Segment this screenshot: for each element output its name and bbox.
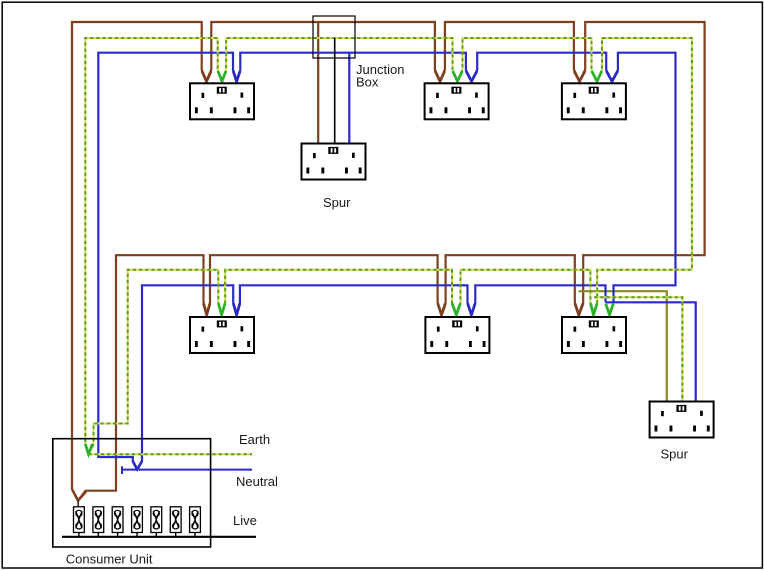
- arrow terminal brown socket2: [435, 71, 445, 81]
- wire live ring (brown): [72, 22, 705, 501]
- arrow terminal blue neutral bar: [133, 461, 142, 469]
- arrow terminal brown socket3: [574, 71, 585, 81]
- arrow terminal green socket2: [453, 71, 463, 81]
- socket outlet spur bottom right: [650, 402, 714, 438]
- socket outlet S2 top row: [425, 83, 489, 119]
- fuse F7: [190, 507, 201, 537]
- wire earth spur branch green dashes: [594, 297, 682, 401]
- consumer unit box: [53, 439, 211, 547]
- arrow terminal green socket3: [592, 71, 602, 81]
- socket outlet S6 middle row: [562, 317, 626, 353]
- socket outlet S3 top row: [562, 83, 626, 119]
- wire earth ring green dashes: [85, 38, 692, 454]
- arrow terminal green socket5: [452, 304, 460, 315]
- socket outlet S4 middle row: [190, 317, 254, 353]
- arrow terminal blue socket1: [233, 71, 240, 81]
- arrow terminal brown socket5: [438, 304, 446, 315]
- arrow terminal brown socket1: [202, 71, 211, 81]
- svg-text:Neutral: Neutral: [236, 474, 278, 489]
- svg-text:Spur: Spur: [661, 447, 689, 462]
- wire neutral ring left half (blue): [98, 53, 675, 470]
- wire neutral label line (blue): [122, 469, 252, 471]
- arrow terminal green socket1: [218, 71, 226, 81]
- wire live tail into fuse F1: [77, 500, 79, 508]
- svg-text:Box: Box: [356, 74, 379, 89]
- wire neutral ring return half (blue): [137, 285, 605, 469]
- wire live drop junction box to spur (brown): [317, 22, 319, 143]
- wire earth spur branch yellow underlay: [594, 297, 682, 401]
- fuse F3: [112, 507, 123, 537]
- arrow terminal green earth bar: [85, 444, 92, 454]
- wire earth ring yellow underlay: [85, 38, 692, 454]
- socket outlet S5 middle row: [425, 317, 489, 353]
- wire earth label line yellow underlay: [89, 453, 253, 455]
- fuse F4: [132, 507, 143, 537]
- wire live spur branch (olive): [579, 291, 667, 401]
- wire neutral spur branch (blue): [606, 302, 696, 401]
- arrow terminal blue socket4: [233, 304, 239, 315]
- arrow terminal green socket6: [591, 304, 597, 315]
- arrow terminal brown socket4: [204, 304, 210, 315]
- fuse F5: [151, 507, 162, 537]
- svg-text:Earth: Earth: [239, 432, 270, 447]
- wire neutral drop junction box to spur (blue): [348, 53, 350, 143]
- fuse F2: [93, 507, 104, 537]
- svg-text:Consumer Unit: Consumer Unit: [66, 552, 153, 567]
- arrow terminal green under blue dip socket6: [606, 304, 614, 315]
- fuse F1: [74, 507, 85, 537]
- live busbar line: [62, 536, 256, 538]
- socket outlet spur from junction box: [302, 144, 366, 180]
- socket outlet S1 top row: [190, 83, 254, 119]
- svg-text:Spur: Spur: [323, 195, 351, 210]
- svg-text:Live: Live: [233, 513, 257, 528]
- wire earth drop junction box to spur (bare black): [334, 38, 336, 143]
- arrow terminal blue socket2: [466, 71, 477, 81]
- arrow terminal green socket4: [219, 304, 226, 315]
- wire neutral label line end tick: [121, 466, 123, 474]
- fuse F6: [170, 507, 181, 537]
- arrow terminal brown fuse1: [72, 490, 86, 501]
- arrow terminal blue socket5: [468, 304, 475, 315]
- wire earth label line green dashes: [89, 453, 253, 455]
- arrow terminal blue socket3: [606, 71, 617, 81]
- junction box: [313, 16, 355, 58]
- arrow terminal brown socket6: [575, 304, 583, 315]
